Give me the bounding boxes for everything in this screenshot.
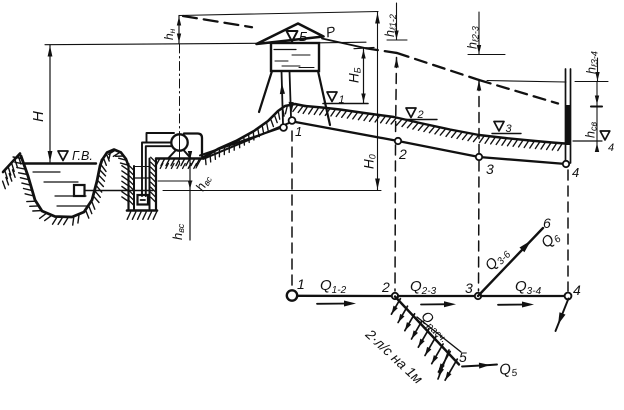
last withdrawal arrow below node5 [438, 350, 449, 379]
wire node1 vertical dashed [291, 131, 293, 290]
level mark 4 [600, 131, 610, 140]
basin outer left slope [3, 154, 20, 173]
withdrawal arrow 5 [418, 329, 429, 347]
standpipe at node 4 [565, 69, 567, 163]
wire pump piezometric dashed line [183, 16, 252, 27]
level mark 2 [406, 108, 416, 118]
level mark 3 [494, 122, 504, 132]
ground line at pump station [156, 157, 203, 159]
plan pipe 2-3 [398, 295, 475, 297]
withdrawal arrow 7 [432, 344, 443, 364]
node 3 profile [476, 154, 482, 160]
well water level [134, 177, 150, 179]
node h_вс dimension [189, 152, 191, 240]
well right wall [149, 159, 151, 210]
plan node 1 [287, 290, 297, 300]
flow arrow 1-2 [317, 303, 350, 305]
node 4 profile [563, 161, 569, 167]
ground mound under tower [203, 104, 305, 158]
basin water dashes [33, 171, 60, 173]
riser pipe down with arrow [290, 71, 292, 117]
water tower legs [259, 71, 272, 112]
pump foundation hatch [156, 159, 200, 166]
branch pipe 3-6 [478, 228, 543, 296]
well left wall [127, 164, 129, 210]
svg-text:3: 3 [486, 161, 494, 177]
wire piezometric dashed 3-4 [479, 80, 558, 104]
water tower tank Б [271, 43, 319, 71]
wire node3 piezo reference line [487, 81, 566, 83]
pipe section 2-3 [398, 141, 479, 157]
svg-text:Н: Н [30, 111, 47, 122]
withdrawal arrow 4 [412, 321, 422, 339]
svg-text:2: 2 [398, 146, 407, 162]
outflow arrow at node 4 [556, 299, 569, 332]
node h_н dimension [178, 16, 180, 44]
withdrawal arrow 3 [405, 314, 415, 331]
svg-text:3: 3 [465, 280, 473, 296]
pipe section 3-4 [479, 157, 566, 164]
foot valve in well [138, 195, 149, 205]
rising main to tower [200, 127, 283, 156]
node level mark Б [287, 31, 298, 42]
earth hatch basin right/berm [86, 164, 107, 218]
pipe section 1-2 [290, 121, 398, 141]
svg-text:5: 5 [459, 349, 467, 365]
node h_l3-4 dimension [597, 58, 599, 82]
earth hatch well walls [129, 166, 134, 206]
earth hatch below well [127, 212, 156, 219]
berm between basin and well [102, 150, 129, 167]
wire pump head reference line [179, 12, 378, 16]
wire tower piezometric line solid [322, 39, 366, 49]
node 2 profile [395, 138, 401, 144]
wire node2 vertical dashed [396, 58, 397, 138]
svg-text:1: 1 [297, 276, 305, 292]
plan node 4 [565, 293, 572, 300]
water tower roof [257, 24, 324, 45]
level mark 1 [327, 92, 337, 102]
pump axis through circle [179, 134, 181, 152]
flow arrow 3-4 [498, 304, 528, 306]
discharge pipe [184, 134, 202, 157]
node H dimension [49, 45, 51, 162]
ground line right [305, 106, 565, 144]
basin water surface [25, 162, 96, 164]
svg-text:1: 1 [295, 124, 302, 139]
branch pipe 2-5 [395, 297, 459, 365]
pump inlet pipe upper [147, 133, 175, 142]
float strainer in basin [74, 185, 85, 196]
svg-text:Г.В.: Г.В. [72, 149, 93, 163]
wire piezometric dashed 1-2 [366, 48, 397, 53]
withdrawal arrow 6 [425, 336, 436, 355]
plan node 3 [475, 293, 481, 299]
wire node4 vertical dashed [567, 170, 569, 291]
plan pipe 1-2 [298, 295, 393, 298]
plan pipe 3-4 [481, 295, 565, 297]
flow arrow 2-3 [421, 303, 450, 305]
wire node3 vertical dashed [478, 81, 480, 154]
node НБ dimension [363, 48, 365, 103]
plan node 2 [392, 293, 398, 299]
outflow arrow Q5 [462, 365, 490, 367]
wire piezometric dashed 2-3 [397, 53, 479, 80]
node h_l1-2 dimension [396, 3, 398, 40]
withdrawal arrow 9 [445, 359, 457, 380]
riser pipe up with arrow [282, 71, 284, 124]
earth hatch basin left [5, 155, 21, 178]
basin bowl outline [21, 156, 102, 217]
svg-text:4: 4 [608, 142, 614, 154]
svg-text:6: 6 [543, 215, 551, 231]
node 1 junction circles [280, 124, 287, 131]
pump base [169, 150, 177, 158]
svg-text:4: 4 [572, 165, 579, 180]
wire H reference level line [45, 43, 270, 45]
node h_l2-3 dimension [478, 12, 480, 55]
tank water level dashes [274, 49, 296, 51]
pump axis dash-dot line [179, 44, 181, 166]
suction pipe from well [142, 143, 172, 197]
node h_св dimension [596, 82, 598, 151]
well bottom [127, 209, 157, 212]
water level mark Г.В. [58, 151, 68, 161]
withdrawal arrow 8 [438, 352, 450, 373]
wire datum line [163, 190, 381, 192]
wire float line [85, 190, 154, 192]
withdrawal arrow 1 [391, 299, 400, 315]
svg-text:Б: Б [299, 29, 308, 44]
svg-text:4: 4 [573, 282, 581, 298]
pump P1 [171, 134, 187, 150]
withdrawal arrow 2 [398, 306, 407, 322]
svg-text:2: 2 [381, 279, 390, 295]
node H0 dimension line [377, 12, 379, 191]
